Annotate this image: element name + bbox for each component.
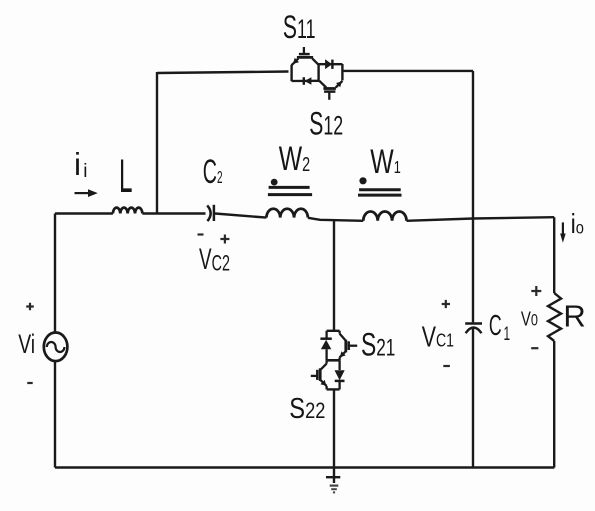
svg-text:i: i xyxy=(83,161,87,182)
svg-text:L: L xyxy=(119,149,132,202)
svg-text:i: i xyxy=(74,146,81,182)
svg-text:Vi: Vi xyxy=(18,329,35,359)
svg-text:S11: S11 xyxy=(283,8,316,45)
svg-text:V0: V0 xyxy=(521,307,538,330)
svg-text:S12: S12 xyxy=(309,105,343,142)
svg-text:R: R xyxy=(563,299,585,334)
